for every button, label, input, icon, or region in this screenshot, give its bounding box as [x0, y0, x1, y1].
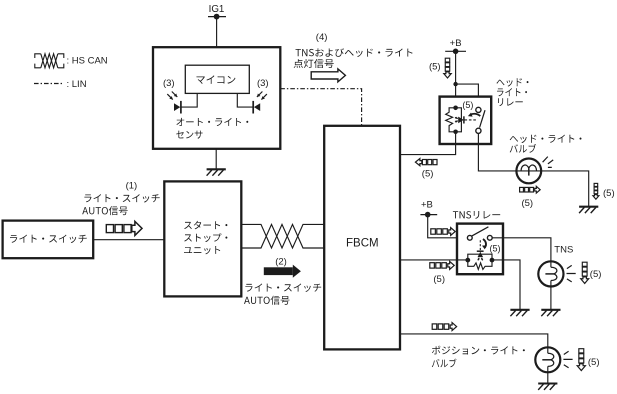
label (4): [316, 32, 328, 43]
wire TNS relay to TNS bulb: [492, 238, 551, 261]
position bulb rays: [563, 351, 572, 368]
label FBCM: [346, 238, 379, 250]
svg-text:(4): (4): [316, 32, 328, 43]
svg-text:(5): (5): [590, 269, 602, 280]
wire TNS coil to ground: [492, 260, 520, 310]
svg-text:(3): (3): [163, 78, 175, 89]
label auto light sensor line1: [176, 118, 248, 126]
legend HS CAN twisted-pair symbol: [35, 54, 64, 68]
label headlight relay line1: [497, 78, 529, 86]
ground TNS coil: [510, 310, 529, 316]
TNS relay coil branch: [468, 254, 492, 269]
legend label HS CAN: [67, 55, 108, 66]
connector (1) squares and arrow: [106, 221, 142, 235]
relay coil branch (headlight relay): [446, 108, 462, 132]
label (5) headlight ground: [603, 188, 615, 199]
svg-text:IG1: IG1: [209, 4, 225, 15]
label headlight relay line3: [498, 98, 523, 106]
label TNS and headlight: [296, 48, 413, 57]
svg-text:(5): (5): [588, 357, 600, 368]
TNS relay switch: [467, 227, 492, 240]
ground position bulb: [538, 384, 557, 390]
wire to relay switch contact: [456, 84, 479, 107]
svg-text:TNS: TNS: [554, 244, 573, 255]
svg-text:(5): (5): [521, 198, 533, 209]
LIN bus wire (dash-dot): [280, 89, 361, 126]
relay actuation arrow (headlight relay): [468, 113, 480, 117]
photodiode D2 (right): [237, 92, 267, 114]
svg-text:(5): (5): [490, 243, 501, 253]
relay linkage dashed: [465, 119, 478, 121]
FBCM box: [324, 126, 400, 350]
label (5) TNS bulb: [590, 269, 602, 280]
position light bulb: [535, 347, 560, 372]
connector (5) on coil wire: [415, 159, 437, 166]
label TNS: [554, 244, 573, 255]
+B terminal bar (TNS): [420, 214, 437, 216]
ground headlight: [579, 207, 598, 213]
light switch box: [3, 221, 94, 259]
svg-text:: HS CAN: : HS CAN: [67, 55, 108, 66]
photodiode D1 (left): [167, 92, 197, 114]
svg-text:FBCM: FBCM: [346, 238, 379, 250]
label (5) below headlight bulb: [521, 198, 533, 209]
svg-text:(3): (3): [257, 78, 269, 89]
HS CAN twisted pair wire B: [241, 224, 324, 248]
label AUTO signal: [82, 206, 128, 215]
label light switch (in box): [10, 235, 87, 243]
ground below sensor: [207, 169, 226, 175]
headlight relay box: [440, 97, 492, 144]
IG1 terminal bar: [208, 16, 226, 18]
wire headlight bulb to ground: [541, 171, 589, 207]
label TNS relay: [453, 211, 500, 219]
label light switch AUTO signal line2: [244, 296, 290, 305]
connector on position light wire: [432, 323, 456, 331]
svg-text:+B: +B: [450, 38, 462, 49]
label (5) +B feed: [429, 61, 441, 72]
label position light line1: [432, 346, 525, 355]
relay coil diode (headlight relay): [455, 116, 464, 123]
svg-text:(5): (5): [462, 100, 473, 110]
wire IG1 to sensor: [216, 17, 218, 48]
label (5) TNS coil wire: [433, 274, 445, 285]
junction dot TNS coil right: [490, 258, 495, 263]
svg-text:(1): (1): [126, 180, 138, 191]
label (1): [126, 180, 138, 191]
connector (5) at TNS bulb: [581, 262, 589, 283]
label headlight bulb line2: [510, 144, 537, 153]
signal arrow (2) solid: [264, 265, 301, 278]
TNS relay coil diode: [477, 251, 484, 260]
svg-text:: LIN: : LIN: [67, 79, 87, 90]
wire +B to TNS relay switch: [428, 215, 468, 238]
label auto light sensor line2: [176, 131, 202, 139]
TNS bulb: [538, 261, 563, 286]
TNS bulb rays: [567, 265, 576, 282]
legend LIN dash-dot line: [34, 83, 64, 85]
junction dot +B TNS: [425, 212, 431, 218]
connector (5) below headlight bulb: [520, 186, 541, 193]
microcomputer box: [185, 65, 249, 93]
label (5) in headlight relay: [462, 100, 473, 110]
connector (5) at position bulb: [577, 349, 585, 371]
connector on TNS +B feed: [431, 228, 455, 236]
junction dot IG1: [214, 14, 220, 20]
start-stop unit box: [164, 181, 241, 296]
junction dot +B headlight: [453, 49, 459, 55]
signal arrow (4) outline: [311, 69, 345, 82]
label (5) coil wire: [422, 168, 434, 179]
label (2): [275, 256, 287, 267]
TNS relay box: [457, 224, 503, 275]
wire FBCM to position light: [400, 334, 548, 347]
svg-text:(5): (5): [422, 168, 434, 179]
label (5) position bulb: [588, 357, 600, 368]
legend label LIN: [67, 79, 87, 90]
+B terminal bar (headlight): [445, 50, 466, 52]
junction dot coil bottom: [453, 130, 458, 135]
junction dot coil top: [453, 106, 458, 111]
label light switch AUTO signal line1: [245, 284, 321, 292]
label microcomputer: [197, 75, 236, 84]
wire TNS bulb to ground: [550, 287, 552, 310]
junction dot relay feed split: [453, 82, 457, 86]
wire position bulb to ground: [547, 372, 549, 383]
HS CAN twisted pair wire A: [241, 224, 324, 248]
auto-light-sensor box: [153, 47, 280, 149]
label lighting signal: [294, 59, 334, 68]
label headlight relay line2: [497, 88, 527, 96]
headlight bulb: [516, 159, 541, 184]
label (3) right: [257, 78, 269, 89]
label position light line2: [432, 359, 457, 368]
svg-text:(5): (5): [433, 274, 445, 285]
junction dot TNS coil left: [465, 258, 470, 263]
wire light switch to start-stop unit: [93, 239, 164, 241]
label headlight bulb line1: [510, 135, 582, 143]
label unit line3: [184, 246, 220, 254]
label stop line2: [184, 233, 227, 242]
label (3) left: [163, 78, 175, 89]
svg-text:(2): (2): [275, 256, 287, 267]
relay switch (headlight relay): [476, 107, 485, 133]
net label +B (TNS): [421, 200, 433, 211]
connector (5) at headlight ground: [593, 183, 599, 199]
TNS relay linkage dashed: [479, 240, 481, 252]
svg-text:(5): (5): [603, 188, 615, 199]
label (5) in TNS relay: [490, 243, 501, 253]
wire +B to relay coil: [455, 51, 457, 107]
TNS relay actuation arrow: [482, 239, 487, 249]
connector (5) on TNS coil wire: [430, 261, 454, 269]
wire FBCM to TNS coil: [400, 259, 469, 261]
connector (5) on +B feed: [444, 58, 451, 78]
ground TNS bulb: [541, 310, 560, 316]
label light switch signal: [84, 194, 159, 202]
label start line1: [184, 221, 227, 229]
svg-text:(5): (5): [429, 61, 441, 72]
svg-text:+B: +B: [421, 200, 433, 211]
wire sensor to ground: [215, 149, 217, 170]
net label +B (headlight): [450, 38, 462, 49]
wire relay switch to headlight bulb: [478, 133, 516, 171]
net label IG1: [209, 4, 225, 15]
wire relay coil to FBCM: [400, 132, 456, 155]
headlight bulb rays: [543, 157, 554, 168]
